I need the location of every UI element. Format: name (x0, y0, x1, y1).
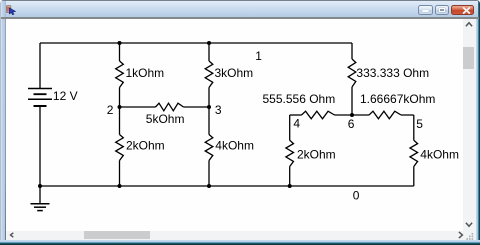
title bar (0, 1, 480, 17)
wire 4kOhm left top lead (208, 107, 210, 135)
wire 1kOhm top lead (119, 43, 121, 61)
svg-text:4kOhm: 4kOhm (215, 139, 254, 153)
svg-text:0: 0 (353, 189, 360, 203)
svg-text:2kOhm: 2kOhm (126, 139, 165, 153)
resistor 555.556 Ohm (302, 111, 335, 119)
title bar icon (6, 5, 16, 15)
svg-text:2kOhm: 2kOhm (297, 147, 336, 161)
wire node4 corner to 555.556 (290, 114, 302, 116)
wire 4kOhm left bottom lead (208, 161, 210, 187)
junction ground (38, 184, 42, 188)
junction node 2 (118, 105, 122, 109)
resistor 1.66667kOhm (369, 111, 401, 119)
junction 2kOhm right bottom (288, 184, 292, 188)
junction 2kOhm left bottom (118, 184, 122, 188)
svg-text:333.333 Ohm: 333.333 Ohm (356, 66, 429, 80)
maximize button (435, 5, 450, 15)
right border (below title) (474, 19, 480, 241)
wire 333.333 Ohm bottom lead to node6 (351, 87, 353, 115)
ground symbol (31, 204, 50, 211)
battery V1 plates (28, 89, 52, 107)
wire node2 to 5kOhm (120, 106, 156, 108)
minimize button (418, 5, 434, 15)
horizontal scrollbar thumb (84, 231, 150, 239)
svg-text:5kOhm: 5kOhm (146, 112, 185, 126)
vertical scrollbar up arrow (465, 21, 473, 28)
canvas inset edge line (5, 19, 6, 241)
wire 2kOhm right bottom lead (289, 167, 291, 187)
wire battery top lead (39, 43, 41, 88)
wire 4kOhm right top lead (413, 115, 415, 140)
horizontal scrollbar left arrow (9, 232, 15, 238)
close button (451, 5, 474, 15)
svg-text:1: 1 (255, 49, 262, 63)
wire 555.556 to node6 (335, 114, 370, 116)
wire 1kOhm bottom lead (119, 88, 121, 108)
svg-text:6: 6 (348, 117, 355, 131)
wire 2kOhm left top lead (119, 107, 121, 135)
window resize grip (465, 231, 475, 241)
svg-text:3: 3 (215, 103, 222, 117)
wire 3kOhm top lead (208, 43, 210, 61)
svg-text:5: 5 (416, 117, 423, 131)
bottom border (0, 240, 480, 245)
svg-text:4kOhm: 4kOhm (420, 147, 459, 161)
left border (0, 1, 6, 241)
wire 2kOhm left bottom lead (119, 161, 121, 187)
resistor 2kOhm right (286, 140, 294, 166)
vertical scrollbar track (463, 19, 476, 231)
wire bottom rail (net 0) (40, 185, 414, 187)
horizontal scrollbar right arrow (457, 231, 464, 239)
separator line under title bar (1, 17, 479, 19)
svg-text:555.556 Ohm: 555.556 Ohm (263, 92, 336, 106)
junction at 3kOhm top (207, 41, 211, 45)
resistor 333.333 Ohm (348, 59, 356, 87)
junction 4kOhm left bottom (207, 184, 211, 188)
junction node 3 (207, 105, 211, 109)
svg-text:12 V: 12 V (53, 89, 78, 103)
resistor 1kOhm (116, 61, 124, 88)
wire battery bottom lead (39, 107, 41, 187)
svg-text:4: 4 (293, 116, 300, 130)
svg-text:1kOhm: 1kOhm (126, 66, 165, 80)
wire 333.333 Ohm top lead (351, 43, 353, 59)
junction node 6 (350, 113, 354, 117)
right border dark edge (title region) (478, 0, 480, 19)
resistor 3kOhm (205, 61, 213, 88)
ground stub (39, 186, 41, 204)
resistor 4kOhm left (205, 135, 213, 161)
window outer top border (0, 0, 480, 1)
resistor 5kOhm (156, 103, 184, 111)
resistor 2kOhm left (116, 135, 124, 161)
wire 5kOhm to node3 (184, 106, 210, 108)
svg-text:2: 2 (107, 103, 114, 117)
horizontal scrollbar track (6, 231, 476, 241)
svg-text:3kOhm: 3kOhm (215, 66, 254, 80)
junction at 1kOhm top (118, 41, 122, 45)
svg-text:1.66667kOhm: 1.66667kOhm (360, 92, 435, 106)
wire 2kOhm right top lead (289, 115, 291, 140)
wire 3kOhm bottom lead (208, 88, 210, 108)
vertical scrollbar thumb (463, 47, 474, 69)
resistor 4kOhm right (410, 140, 418, 166)
wire top rail (40, 42, 352, 44)
wire 4kOhm right bottom lead (413, 167, 415, 187)
vertical scrollbar down arrow (465, 221, 473, 228)
wire 1.66667kOhm to node5 corner (401, 114, 414, 116)
